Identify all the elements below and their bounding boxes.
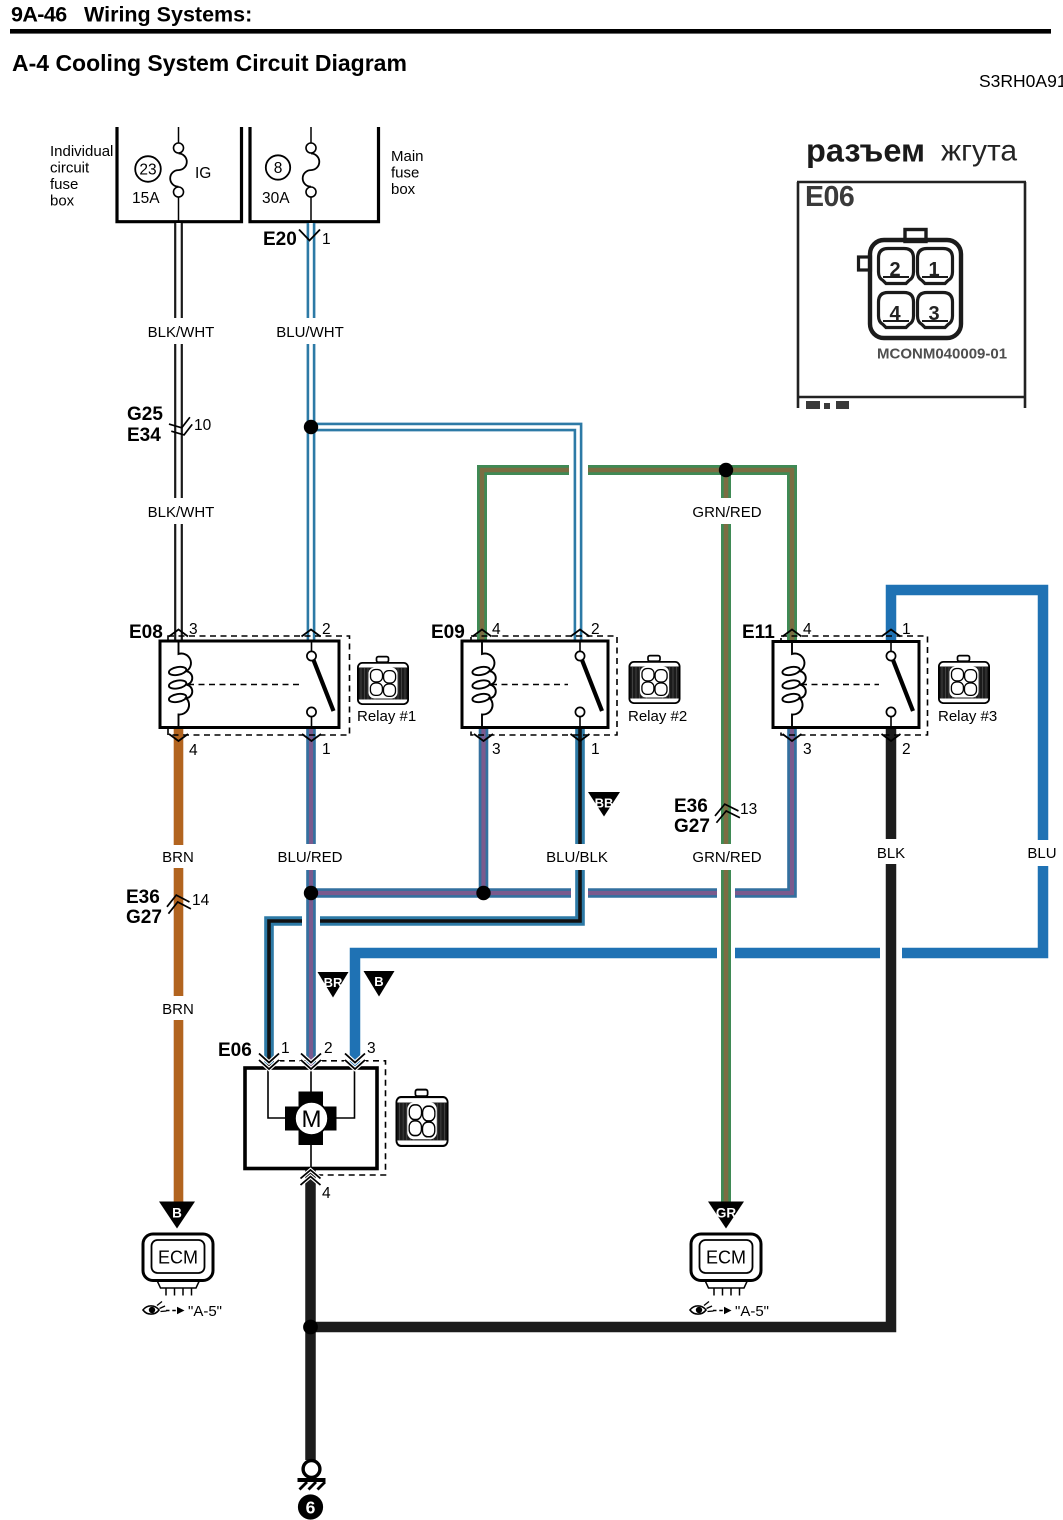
main fuse box	[250, 127, 424, 222]
svg-text:BRN: BRN	[162, 1001, 194, 1018]
svg-text:Wiring Systems:: Wiring Systems:	[84, 3, 252, 27]
harness connector panel heading	[806, 133, 1017, 169]
radiator fan icon at motor	[396, 1090, 447, 1146]
svg-text:3: 3	[928, 303, 939, 325]
svg-text:Individual: Individual	[50, 143, 113, 160]
svg-text:6: 6	[306, 1498, 316, 1518]
svg-text:4: 4	[889, 303, 901, 325]
ground symbol	[298, 1461, 326, 1490]
relay E11	[742, 622, 928, 735]
motor E06 pin 1	[259, 1040, 290, 1069]
svg-text:BLU/BLK: BLU/BLK	[546, 849, 608, 866]
svg-text:A-4 Cooling System Circuit Dia: A-4 Cooling System Circuit Diagram	[12, 50, 407, 76]
svg-text:box: box	[391, 181, 416, 198]
svg-text:9A-46: 9A-46	[11, 3, 67, 27]
svg-text:M: M	[302, 1106, 322, 1133]
connector G25 E34 pin 10	[127, 404, 212, 446]
connector E36 G27 pin 13	[674, 796, 757, 837]
svg-text:E36: E36	[126, 887, 160, 908]
svg-text:GR: GR	[716, 1206, 737, 1221]
svg-text:4: 4	[492, 621, 501, 638]
wire BLU/RED E08 pin 1 down to E06 pin 2	[306, 728, 316, 1068]
motor M symbol	[285, 1092, 337, 1146]
svg-text:жгута: жгута	[941, 135, 1017, 168]
wire BLK E06 pin 4 to ground	[305, 1169, 316, 1460]
triangle marker B at motor	[364, 971, 395, 997]
motor E06 pin 3	[345, 1040, 376, 1069]
svg-text:E34: E34	[127, 425, 161, 446]
relay E11 switch	[886, 641, 913, 728]
svg-text:2: 2	[324, 1040, 333, 1057]
relay E11 pin 1	[882, 621, 911, 638]
svg-text:GRN/RED: GRN/RED	[692, 504, 761, 521]
radiator fan icon relay 2	[629, 656, 679, 704]
relay E11 coil	[782, 641, 806, 728]
triangle marker BR	[318, 972, 349, 998]
svg-text:BLK/WHT: BLK/WHT	[148, 504, 215, 521]
svg-text:ECM: ECM	[706, 1248, 746, 1268]
connector E36 G27 pin 14	[126, 887, 210, 928]
relay E09 pin 3	[474, 734, 501, 758]
svg-text:fuse: fuse	[391, 165, 419, 182]
svg-text:15A: 15A	[132, 190, 160, 207]
motor internal lead pin 4	[310, 1144, 312, 1169]
wire BLU/RED horizontal run to E11 pin 3	[311, 728, 792, 894]
svg-text:BLU: BLU	[1027, 845, 1056, 862]
svg-text:4: 4	[189, 742, 198, 759]
svg-text:E11: E11	[742, 622, 775, 643]
relay E08 pin 2	[302, 621, 331, 638]
relay E11 pin 2	[882, 734, 911, 758]
node junction BLK	[303, 1320, 318, 1335]
relay E11 dashed link	[801, 684, 879, 686]
harness connector E06 drawing	[859, 230, 962, 339]
svg-text:1: 1	[322, 231, 331, 248]
svg-text:E36: E36	[674, 796, 708, 817]
harness connector panel box	[797, 182, 1026, 408]
relay E08 switch	[307, 641, 334, 728]
relay E09 pin 4	[473, 621, 502, 638]
ECM right sight reference A-5	[690, 1302, 769, 1321]
radiator fan icon relay 1	[358, 657, 408, 705]
relay E08 dashed link	[188, 684, 300, 686]
svg-text:box: box	[50, 193, 75, 210]
relay E11 pin 4	[783, 621, 813, 638]
svg-text:B: B	[172, 1206, 182, 1221]
svg-text:1: 1	[281, 1040, 290, 1057]
relay E08	[129, 622, 350, 735]
relay E09 coil	[472, 641, 496, 728]
svg-text:10: 10	[194, 417, 212, 434]
fuse 8 30A	[262, 127, 319, 222]
svg-text:2: 2	[591, 621, 600, 638]
svg-text:1: 1	[928, 259, 939, 281]
relay E09 pin 1	[571, 734, 600, 758]
svg-text:14: 14	[192, 892, 210, 909]
svg-text:30A: 30A	[262, 190, 290, 207]
relay E08 pin 1	[302, 734, 331, 758]
svg-text:G25: G25	[127, 404, 163, 425]
svg-text:G27: G27	[126, 907, 162, 928]
motor internal lead pin 2	[310, 1068, 312, 1092]
motor internal lead pin 1	[268, 1068, 292, 1118]
svg-text:Relay #3: Relay #3	[938, 708, 997, 725]
svg-text:2: 2	[322, 621, 331, 638]
svg-text:ECM: ECM	[158, 1248, 198, 1268]
svg-text:1: 1	[902, 621, 911, 638]
ECM left	[143, 1234, 213, 1296]
svg-text:1: 1	[591, 741, 600, 758]
svg-text:разъем: разъем	[806, 133, 925, 169]
svg-text:BLU/RED: BLU/RED	[277, 849, 342, 866]
svg-text:Relay #1: Relay #1	[357, 708, 416, 725]
svg-text:Relay #2: Relay #2	[628, 708, 687, 725]
relay E08 pin 4	[169, 734, 198, 759]
svg-text:E06: E06	[218, 1040, 252, 1061]
svg-text:BB: BB	[595, 796, 614, 811]
ECM right	[691, 1234, 761, 1296]
svg-text:2: 2	[889, 259, 900, 281]
motor assembly E06	[218, 1040, 386, 1175]
motor E06 pin 4	[301, 1170, 332, 1202]
relay E08 pin 3	[169, 621, 198, 638]
wire BLU/WHT fuse E20 to E08 pin 2	[307, 223, 316, 641]
svg-text:"A-5": "A-5"	[735, 1303, 769, 1320]
svg-text:3: 3	[803, 741, 812, 758]
svg-text:2: 2	[902, 741, 911, 758]
connector E20 pin 1	[263, 229, 331, 250]
wire BLU/WHT branch junction to E09 pin 2	[311, 427, 578, 641]
svg-text:"A-5": "A-5"	[188, 1303, 222, 1320]
svg-text:4: 4	[803, 621, 812, 638]
svg-text:E09: E09	[431, 622, 465, 643]
relay E08 coil	[168, 641, 192, 728]
svg-text:BLU/WHT: BLU/WHT	[276, 324, 344, 341]
svg-text:1: 1	[322, 741, 331, 758]
wire BLU/BLK E09 pin 1 to E06 pin 1	[269, 728, 580, 1068]
svg-text:MCONM040009-01: MCONM040009-01	[877, 346, 1007, 363]
svg-text:8: 8	[274, 160, 283, 177]
svg-text:E08: E08	[129, 622, 163, 643]
svg-text:BLK/WHT: BLK/WHT	[148, 324, 215, 341]
fuse 23 IG 15A	[132, 127, 211, 222]
svg-text:3: 3	[189, 621, 198, 638]
svg-text:BLK: BLK	[877, 845, 905, 862]
wire BLU/RED E09 pin 3 drop	[479, 728, 489, 894]
wire GRN/RED junction down to ECM GR	[721, 470, 731, 1202]
svg-text:G27: G27	[674, 816, 710, 837]
triangle marker GR above right ECM	[708, 1202, 744, 1229]
relay E09 switch	[575, 641, 602, 728]
node junction BLU/WHT	[304, 420, 318, 434]
svg-text:S3RH0A910E: S3RH0A910E	[979, 71, 1063, 91]
svg-text:3: 3	[492, 741, 501, 758]
motor internal lead pin 3	[331, 1068, 355, 1118]
svg-text:23: 23	[139, 162, 156, 179]
wire BRN E08 pin 4 to ECM B	[174, 728, 184, 1203]
page header title 9A-46 Wiring Systems	[11, 3, 252, 27]
svg-text:4: 4	[322, 1185, 331, 1202]
triangle marker BB	[588, 792, 620, 817]
wire BLK E11 pin 2 to ground run	[311, 728, 892, 1328]
ground node number 6	[298, 1494, 323, 1519]
wire BLU E11 pin 1 loop to E06 pin 3	[355, 590, 1043, 1067]
svg-text:circuit: circuit	[50, 160, 90, 177]
node junction GRN/RED	[719, 463, 733, 477]
svg-text:B: B	[374, 974, 383, 989]
motor E06 pin 2	[301, 1040, 333, 1069]
relay E09 pin 2	[571, 621, 600, 638]
svg-text:BRN: BRN	[162, 849, 194, 866]
svg-text:3: 3	[367, 1040, 376, 1057]
relay E11 pin 3	[783, 734, 812, 758]
svg-text:E20: E20	[263, 229, 297, 250]
ECM left sight reference A-5	[143, 1302, 222, 1321]
harness panel clipped next label	[806, 401, 849, 409]
svg-text:BR: BR	[324, 975, 343, 990]
wire BLK/WHT fuse box to E08 pin 3	[174, 223, 183, 641]
wire GRN/RED E09 pin 4 across to E11 pin 4	[482, 470, 792, 641]
radiator fan icon relay 3	[939, 656, 989, 704]
node junction BLU/RED at E08 drop	[304, 886, 318, 900]
svg-text:fuse: fuse	[50, 176, 78, 193]
header rule	[10, 29, 1051, 34]
svg-text:IG: IG	[195, 165, 211, 182]
svg-text:13: 13	[740, 801, 757, 818]
relay E09	[431, 622, 617, 735]
individual circuit fuse box	[50, 127, 242, 222]
svg-text:Main: Main	[391, 148, 424, 165]
node junction BLU/RED at E09 drop	[476, 886, 490, 900]
svg-text:GRN/RED: GRN/RED	[692, 849, 761, 866]
relay E09 dashed link	[491, 684, 568, 686]
triangle marker B above left ECM	[159, 1202, 195, 1229]
svg-text:E06: E06	[805, 181, 854, 213]
